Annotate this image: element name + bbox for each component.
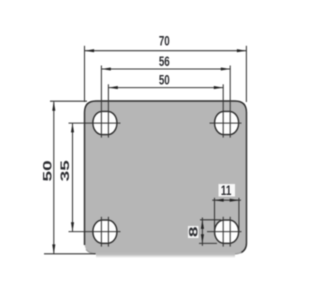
dimension 50 top line <box>109 87 224 89</box>
dimension 8 line <box>201 218 203 246</box>
centerline horizontal bottom-right hole <box>207 231 242 233</box>
hole bottom-right (slot) <box>215 220 239 243</box>
hole bottom-left (slot) <box>93 220 117 243</box>
extension line right outer slot center (56) through top-right hole <box>229 66 231 138</box>
centerline horizontal bottom-left hole (extends to 35-dim) <box>69 231 121 233</box>
extension line slot right end (11-dim) <box>238 198 240 233</box>
dimension 56 line <box>102 68 231 70</box>
extension line plate right edge (70-dim) <box>245 46 247 102</box>
svg-text:56: 56 <box>159 53 170 69</box>
extension line plate top edge to left (50-dim) <box>50 100 87 102</box>
dimension 11 line <box>212 199 241 201</box>
extension line slot left end (11-dim) <box>214 198 216 233</box>
svg-text:35: 35 <box>60 160 73 181</box>
svg-text:11: 11 <box>221 182 232 198</box>
dimension 35 line <box>72 123 74 231</box>
extension line plate bottom edge to left (50-dim) <box>44 253 96 255</box>
centerlines vertical bottom-right hole <box>222 217 224 247</box>
svg-text:70: 70 <box>159 33 170 49</box>
extension line slot bottom edge (8-dim) <box>199 242 217 244</box>
extension line plate left edge (70-dim) <box>84 46 86 102</box>
dimension 11 label <box>219 184 236 197</box>
svg-text:8: 8 <box>188 226 201 237</box>
plate <box>85 101 247 258</box>
centerline horizontal top-right hole <box>210 122 242 124</box>
dimension 70 line <box>85 50 246 52</box>
centerline horizontal top-left hole (extends to 35-dim) <box>69 122 121 124</box>
centerlines vertical bottom-left hole <box>100 217 102 247</box>
extension line right inner slot center (50) through top-right hole <box>222 84 224 137</box>
dimension 50 left line <box>53 102 55 254</box>
svg-text:50: 50 <box>42 160 55 181</box>
svg-text:50: 50 <box>159 72 170 88</box>
hole top-left (slot) <box>93 111 117 134</box>
extension line left outer slot center (56) through top-left hole <box>100 66 102 138</box>
extension line slot top edge (8-dim) <box>200 219 221 221</box>
hole top-right (slot) <box>215 111 239 134</box>
extension line left inner slot center (50) through top-left hole <box>107 84 109 137</box>
dimension 8 label (rotated) <box>188 226 199 238</box>
